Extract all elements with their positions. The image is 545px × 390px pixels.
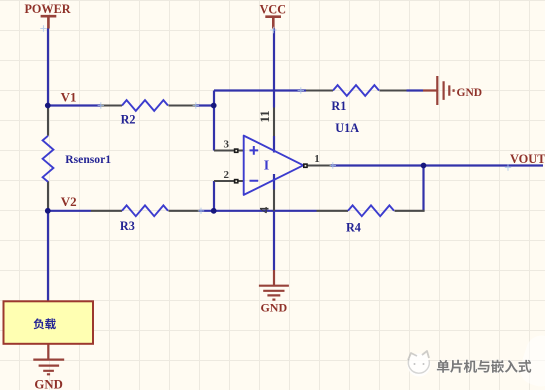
- svg-text:POWER: POWER: [24, 2, 70, 16]
- svg-text:11: 11: [257, 110, 272, 122]
- svg-text:2: 2: [223, 169, 229, 181]
- svg-text:R3: R3: [120, 219, 135, 233]
- svg-text:I: I: [264, 159, 269, 174]
- svg-text:1: 1: [314, 153, 320, 165]
- svg-text:GND: GND: [260, 301, 287, 315]
- svg-text:VOUT: VOUT: [510, 152, 545, 166]
- svg-text:VCC: VCC: [260, 3, 286, 17]
- svg-text:R4: R4: [346, 220, 361, 234]
- svg-text:R1: R1: [331, 99, 346, 113]
- svg-text:GND: GND: [34, 378, 62, 390]
- svg-text:GND: GND: [457, 87, 483, 99]
- svg-text:3: 3: [223, 139, 229, 151]
- svg-text:R2: R2: [121, 112, 136, 126]
- svg-text:V1: V1: [61, 90, 77, 105]
- svg-text:V2: V2: [61, 194, 77, 209]
- svg-text:U1A: U1A: [335, 121, 359, 135]
- svg-text:Rsensor1: Rsensor1: [65, 153, 111, 166]
- svg-text:4: 4: [256, 206, 271, 213]
